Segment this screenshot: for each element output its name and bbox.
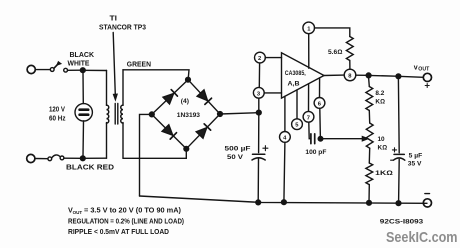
node R4 ground bbox=[367, 200, 372, 205]
svg-text:100 pF: 100 pF bbox=[305, 149, 326, 156]
capacitor C1 500uF bbox=[252, 146, 268, 160]
svg-text:BLACK: BLACK bbox=[70, 52, 95, 59]
transformer T1 primary winding bbox=[106, 71, 108, 159]
svg-text:50 V: 50 V bbox=[227, 154, 244, 161]
wire secondary bottom rail to bridge bottom bbox=[123, 149, 186, 159]
wire pin1 to amp bbox=[308, 34, 310, 69]
diode D1 (top-left) bbox=[163, 90, 177, 104]
wire pin6 to amp bbox=[319, 78, 321, 98]
transformer T1 core bbox=[115, 104, 118, 125]
svg-text:8.2: 8.2 bbox=[375, 90, 384, 97]
wire pin7 to amp bbox=[308, 84, 310, 112]
leader line to transformer core bbox=[113, 33, 117, 100]
svg-text:BLACK RED: BLACK RED bbox=[66, 165, 114, 172]
node output B bbox=[396, 74, 401, 79]
svg-text:5 µF: 5 µF bbox=[409, 153, 423, 160]
node C3 ground bbox=[396, 201, 401, 206]
pin 1 bbox=[303, 22, 315, 34]
terminal VOUT- bbox=[423, 199, 431, 207]
capacitor C3 5uF bbox=[391, 148, 405, 160]
svg-text:STANCOR TP3: STANCOR TP3 bbox=[99, 25, 146, 32]
switch S1 bbox=[50, 68, 54, 72]
node bridge bottom bbox=[184, 146, 189, 151]
svg-text:REGULATION = 0.2% (LINE AND LO: REGULATION = 0.2% (LINE AND LOAD) bbox=[68, 216, 185, 225]
svg-text:1N3193: 1N3193 bbox=[177, 112, 201, 119]
wire R3 to R4 bbox=[368, 148, 370, 163]
svg-text:v: v bbox=[414, 65, 418, 72]
wire node down to C1 bbox=[258, 115, 260, 153]
wire breaker to junction bbox=[64, 157, 81, 159]
svg-text:KΩ: KΩ bbox=[378, 145, 388, 152]
wire C1 to rail bbox=[257, 159, 259, 202]
pin 2 bbox=[255, 52, 266, 63]
node bridge right bbox=[218, 112, 223, 117]
svg-text:A,B: A,B bbox=[288, 81, 300, 88]
pin 6 bbox=[314, 98, 325, 109]
node pin4 ground bbox=[282, 200, 287, 205]
svg-text:5.6Ω: 5.6Ω bbox=[328, 49, 342, 56]
breaker CB1 bbox=[48, 157, 52, 161]
wire switch to junction bbox=[68, 69, 81, 71]
svg-text:92CS-I8093: 92CS-I8093 bbox=[380, 219, 424, 226]
label VOUT bbox=[414, 65, 430, 88]
svg-text:OUT: OUT bbox=[418, 66, 430, 72]
svg-text:RIPPLE < 0.5mV AT FULL LOAD: RIPPLE < 0.5mV AT FULL LOAD bbox=[68, 227, 169, 236]
bridge edge wires bbox=[152, 80, 220, 149]
node bridge top bbox=[186, 77, 191, 82]
node bridge left bbox=[149, 112, 154, 117]
label minus bbox=[425, 193, 430, 195]
potentiometer R3 10K bbox=[366, 123, 373, 148]
wire C3 to rail bbox=[398, 159, 401, 201]
wire junction to primary bottom bbox=[83, 157, 107, 159]
label 8.2 Kohm bbox=[375, 90, 385, 106]
wire pin7 to C2 bbox=[309, 122, 311, 139]
wire source to bottom junction bbox=[82, 121, 85, 156]
wire junction to primary top bbox=[83, 69, 107, 71]
wire terminal to switch bbox=[36, 69, 51, 71]
wire output B down to C3 bbox=[397, 79, 400, 153]
svg-text:KΩ: KΩ bbox=[375, 99, 385, 106]
svg-text:35 V: 35 V bbox=[408, 160, 422, 167]
label 120V 60Hz bbox=[49, 107, 66, 123]
wire pin3 to amp bbox=[264, 92, 281, 94]
svg-text:GREEN: GREEN bbox=[127, 61, 151, 68]
wire amp apex to pin8 bbox=[324, 74, 344, 76]
node: white junction bbox=[80, 68, 85, 73]
node C2 bbox=[318, 136, 323, 141]
pin 7 bbox=[303, 111, 314, 122]
wire node up to pin 3 bbox=[258, 98, 260, 110]
wire R1 to pin 8 bbox=[349, 61, 351, 69]
wire pin5 to amp bbox=[296, 90, 298, 119]
wire C2 node to pot wiper bbox=[321, 138, 364, 140]
label 500uF 50V bbox=[225, 146, 251, 162]
diode D4 (bottom-right) bbox=[196, 124, 210, 138]
resistor R2 8.2K bbox=[366, 87, 373, 111]
pin 5 bbox=[292, 119, 303, 130]
node regulator input bbox=[256, 110, 261, 115]
label BLACK RED bbox=[66, 165, 114, 172]
terminal VOUT+ bbox=[423, 73, 431, 81]
node C1 ground bbox=[256, 200, 261, 205]
wire bridge left to negative rail bbox=[140, 114, 152, 196]
wire terminal to breaker bbox=[35, 158, 48, 160]
pin 8 bbox=[344, 69, 356, 81]
wire pin1 to R1 bbox=[315, 28, 350, 37]
svg-text:WHITE: WHITE bbox=[68, 61, 90, 68]
pot wiper arrow bbox=[362, 137, 367, 141]
wire pin8 to output node bbox=[356, 74, 367, 76]
resistor R1 5.6ohm bbox=[346, 37, 353, 61]
svg-text:500 µF: 500 µF bbox=[225, 146, 251, 153]
wire to vout terminal bbox=[398, 76, 423, 77]
input terminal top bbox=[27, 65, 35, 73]
spec text line 1 bbox=[68, 206, 182, 216]
svg-text:7: 7 bbox=[307, 115, 310, 121]
svg-text:120 V: 120 V bbox=[49, 107, 65, 114]
svg-text:10: 10 bbox=[378, 136, 386, 143]
wire negative bottom rail bbox=[140, 196, 428, 203]
label 5uF 35V bbox=[408, 153, 423, 168]
wire to source bbox=[82, 73, 84, 104]
wire bridge right to regulator input node bbox=[220, 113, 259, 114]
label 10 Kohm bbox=[378, 136, 388, 152]
wire output rail bbox=[369, 74, 397, 77]
svg-text:SeekIC.com: SeekIC.com bbox=[386, 229, 458, 246]
wire pin6 to C2 node bbox=[319, 108, 322, 138]
capacitor C2 100pF bbox=[311, 134, 315, 144]
svg-text:TI: TI bbox=[110, 16, 118, 23]
diode D3 (bottom-left) bbox=[162, 125, 176, 139]
node output A bbox=[366, 73, 371, 78]
input terminal bottom bbox=[27, 154, 35, 162]
wire green rail bbox=[123, 70, 189, 80]
svg-text:2: 2 bbox=[258, 56, 261, 62]
wire pin3 to pin2 bbox=[258, 63, 260, 87]
transformer T1 secondary winding bbox=[122, 70, 124, 159]
wire pin2 to amp bbox=[265, 57, 281, 59]
resistor R4 1K bbox=[366, 163, 373, 185]
wire pin4 to rail bbox=[284, 142, 285, 202]
svg-text:(4): (4) bbox=[181, 98, 189, 105]
svg-text:60 Hz: 60 Hz bbox=[49, 116, 66, 123]
wire R4 to rail bbox=[368, 185, 370, 203]
wire output node to R2 bbox=[368, 78, 371, 87]
source 120V 60Hz bbox=[75, 104, 92, 121]
svg-text:CA3085,: CA3085, bbox=[285, 70, 306, 77]
node: black-red junction bbox=[80, 156, 85, 161]
op-amp U1 CA3085 bbox=[282, 53, 325, 98]
diode D2 (top-right) bbox=[197, 90, 211, 105]
wire pin4 to amp bbox=[284, 96, 286, 131]
pin 4 bbox=[280, 132, 291, 143]
svg-text:1KΩ: 1KΩ bbox=[375, 170, 393, 177]
svg-text:OUT: OUT bbox=[73, 210, 83, 216]
pin 3 bbox=[253, 87, 264, 98]
wire R2 to R3 bbox=[368, 111, 370, 124]
svg-text:= 3.5 V to 20 V (0 TO 90 mA): = 3.5 V to 20 V (0 TO 90 mA) bbox=[84, 206, 182, 215]
